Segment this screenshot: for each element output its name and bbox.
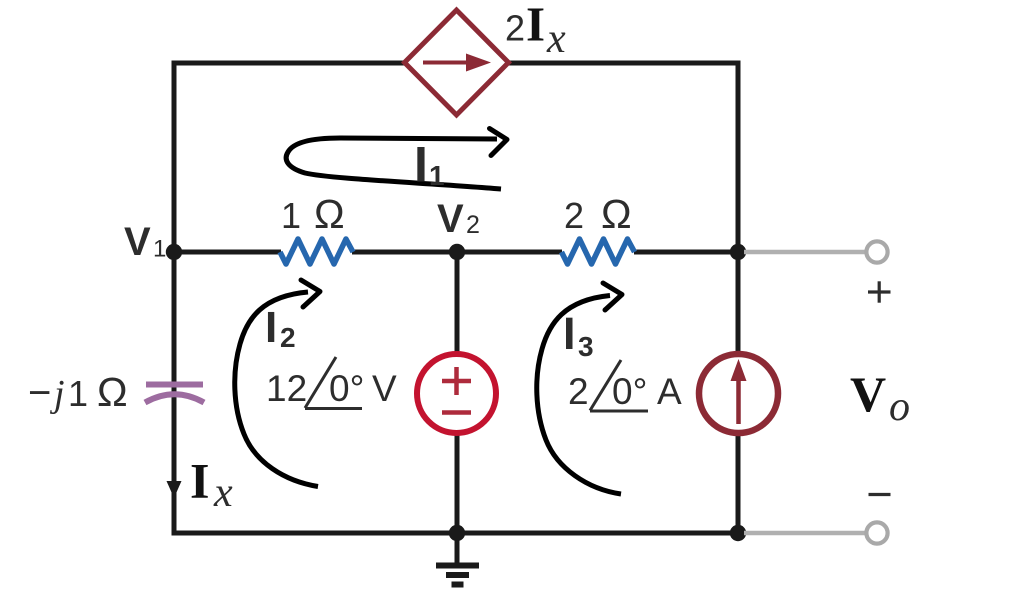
node right middle — [730, 244, 746, 260]
label minus sign — [869, 493, 891, 496]
svg-text:o: o — [889, 384, 910, 430]
svg-text:1: 1 — [153, 236, 166, 263]
wire right vertical lower — [736, 434, 741, 535]
label plus sign — [868, 281, 891, 302]
wire output bottom gray — [744, 531, 866, 536]
label Vo — [850, 366, 910, 430]
label V2 — [437, 197, 480, 241]
mesh current I3 arrow — [537, 283, 622, 494]
svg-text:V: V — [372, 368, 397, 409]
label 2Ix — [505, 0, 566, 62]
svg-text:2: 2 — [505, 8, 525, 49]
svg-text:Ω: Ω — [601, 191, 632, 237]
label 12 angle 0 V — [266, 357, 397, 409]
wire top-right horizontal — [506, 61, 741, 66]
node V2 — [449, 244, 465, 260]
svg-text:1: 1 — [68, 373, 88, 414]
svg-text:Ω: Ω — [97, 369, 128, 415]
label Ix — [190, 453, 233, 517]
wire middle horizontal V1 to R1 — [174, 250, 281, 255]
svg-text:1: 1 — [429, 160, 445, 191]
svg-text:12: 12 — [266, 368, 307, 409]
svg-text:2: 2 — [280, 322, 296, 353]
svg-text:I: I — [265, 303, 277, 352]
svg-text:1: 1 — [281, 195, 301, 236]
svg-text:2: 2 — [564, 195, 584, 236]
current source 2 angle 0 A — [699, 354, 778, 433]
wire middle vertical lower — [455, 434, 460, 535]
resistor R1 1 ohm — [280, 239, 353, 264]
svg-text:x: x — [213, 470, 233, 516]
label I2 — [265, 303, 296, 353]
svg-text:V: V — [437, 197, 464, 241]
node bottom middle — [449, 525, 465, 541]
voltage source 12 angle 0 V — [417, 354, 496, 433]
mesh current I1 arrow — [286, 129, 507, 190]
dependent current source 2Ix (diamond) — [405, 10, 509, 115]
svg-text:I: I — [526, 0, 545, 52]
svg-text:2: 2 — [568, 371, 589, 412]
node V1 — [166, 244, 182, 260]
resistor R2 2 ohm — [562, 239, 635, 264]
wire bottom — [172, 531, 741, 536]
current arrow Ix — [167, 481, 182, 498]
label 2 angle 0 A — [568, 360, 682, 412]
label V1 — [124, 220, 166, 264]
svg-text:I: I — [414, 137, 428, 193]
label I1 — [414, 137, 445, 193]
svg-text:A: A — [657, 371, 682, 412]
svg-text:x: x — [546, 16, 566, 62]
label -j1 ohm — [28, 369, 128, 415]
svg-text:2: 2 — [466, 211, 480, 239]
svg-text:I: I — [190, 453, 209, 509]
wire right vertical upper — [736, 61, 741, 353]
svg-text:0°: 0° — [329, 368, 364, 409]
svg-text:3: 3 — [578, 331, 594, 362]
ground — [436, 533, 479, 585]
capacitor -j1 ohm — [145, 385, 204, 403]
svg-text:V: V — [850, 366, 886, 422]
node bottom right — [730, 525, 746, 541]
terminal minus — [866, 522, 887, 543]
svg-text:I: I — [563, 308, 576, 359]
wire left vertical — [172, 61, 177, 536]
label I3 — [563, 308, 594, 362]
mesh current I2 arrow — [235, 280, 320, 487]
wire middle horizontal R1 to R2 — [352, 250, 562, 255]
wire top-left horizontal — [172, 61, 408, 66]
svg-text:−: − — [28, 371, 51, 415]
svg-text:Ω: Ω — [314, 191, 345, 237]
wire output top gray — [744, 250, 866, 255]
svg-text:0°: 0° — [612, 371, 647, 412]
terminal plus — [866, 241, 887, 262]
wire middle vertical upper — [455, 252, 460, 353]
svg-text:V: V — [124, 220, 151, 264]
wire middle horizontal R2 to right node — [634, 250, 741, 255]
